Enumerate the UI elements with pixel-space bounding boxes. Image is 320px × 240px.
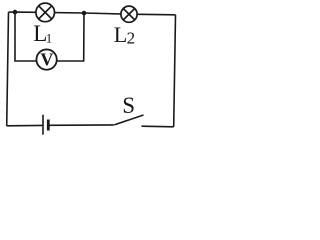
svg-text:2: 2 xyxy=(127,28,136,47)
svg-text:L: L xyxy=(114,22,127,47)
svg-text:V: V xyxy=(40,50,53,70)
svg-text:1: 1 xyxy=(46,30,53,45)
svg-text:S: S xyxy=(122,93,135,118)
